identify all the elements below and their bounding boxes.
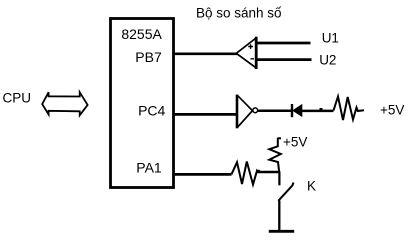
svg-text:+5V: +5V	[380, 103, 404, 118]
wire PB7 pin to comparator output	[174, 52, 238, 55]
minus sign inverting input	[251, 58, 255, 60]
plus sign non-inverting input	[248, 44, 253, 49]
comparator U (triangle, output at left apex)	[236, 37, 256, 69]
switch K upper stub	[278, 172, 280, 185]
pull-up resistor to +5V (vertical squiggle)	[269, 138, 281, 172]
IC 8255A box	[111, 19, 174, 188]
diode D triangle (points left)	[293, 105, 302, 116]
svg-text:PB7: PB7	[135, 49, 162, 65]
wire diode to resistor	[302, 110, 334, 113]
svg-text:PA1: PA1	[136, 160, 162, 176]
inverter output bubble	[253, 108, 258, 113]
svg-text:Bộ so sánh số: Bộ so sánh số	[196, 6, 282, 21]
svg-text:PC4: PC4	[138, 103, 165, 119]
svg-text:8255A: 8255A	[121, 26, 162, 42]
resistor R (PC4 row) zigzag	[334, 97, 365, 121]
svg-text:U1: U1	[322, 31, 339, 46]
wire switch to ground	[278, 201, 280, 232]
switch K blade	[278, 183, 293, 201]
svg-text:CPU: CPU	[3, 91, 32, 106]
svg-text:+5V: +5V	[283, 135, 307, 150]
svg-text:K: K	[307, 179, 316, 194]
resistor R (PA1 row) zigzag	[232, 162, 259, 185]
diode D cathode bar	[291, 104, 293, 117]
wire resistor to switch junction	[258, 171, 281, 174]
wire comparator input U2	[257, 58, 312, 61]
wire PA1 pin to resistor	[174, 173, 232, 176]
CPU bus double arrow	[42, 92, 87, 115]
junction dot at resistor output	[257, 170, 260, 173]
ground symbol	[269, 230, 294, 233]
junction dot on diode wire	[320, 108, 323, 111]
wire comparator input U1	[257, 42, 311, 45]
wire inverter output to diode	[258, 109, 292, 112]
svg-text:U2: U2	[319, 53, 336, 68]
inverter buffer triangle	[237, 95, 252, 127]
wire PC4 pin to inverter input	[174, 113, 238, 116]
